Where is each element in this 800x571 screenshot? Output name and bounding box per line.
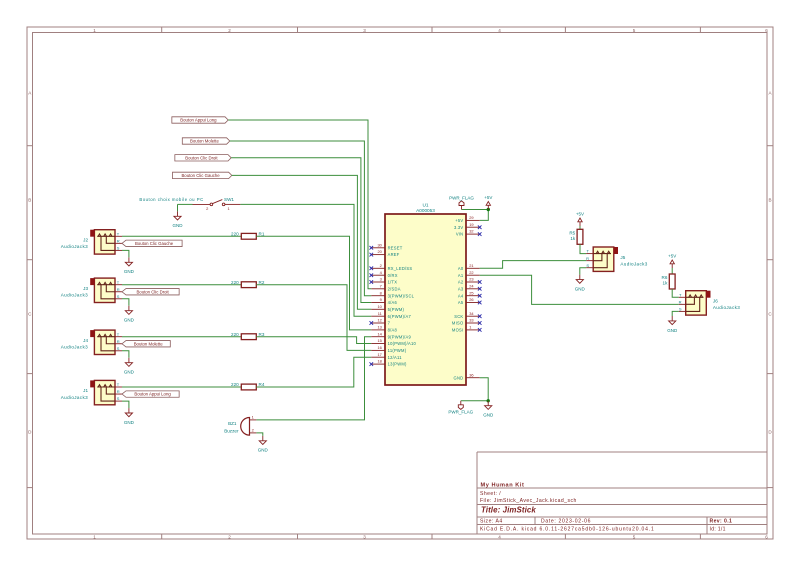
connector J2 AudioJack3 (61, 230, 122, 254)
svg-text:Bouton Appui Long: Bouton Appui Long (180, 118, 217, 123)
svg-text:13: 13 (377, 325, 381, 330)
junction +5V node (487, 208, 490, 211)
svg-text:4/A6: 4/A6 (388, 300, 398, 305)
wire Bouton Clic Droit to U1 (231, 158, 371, 303)
svg-text:12/A11: 12/A11 (388, 355, 403, 360)
svg-text:A0: A0 (458, 266, 464, 271)
no-connect X at pin 30 (370, 246, 374, 250)
U1 pin 33 MISO (466, 322, 480, 324)
svg-text:KiCad E.D.A. kicad 6.0.11-262: KiCad E.D.A. kicad 6.0.11-2627ca5db0-126… (480, 526, 655, 532)
svg-text:GND: GND (483, 413, 494, 418)
svg-text:6: 6 (765, 28, 768, 33)
svg-text:A5: A5 (458, 300, 464, 305)
svg-text:File: JimStick_Avec_Jack.kicad: File: JimStick_Avec_Jack.kicad_sch (480, 498, 577, 504)
svg-text:7: 7 (380, 283, 382, 288)
svg-text:U1: U1 (423, 203, 429, 208)
svg-text:Sheet: /: Sheet: / (480, 491, 501, 497)
hierarchical label Bouton Clic Gauche (173, 172, 232, 178)
svg-text:A000053: A000053 (416, 208, 435, 213)
svg-text:Date: 2023-02-06: Date: 2023-02-06 (541, 519, 591, 525)
wire +5V to R6 (671, 268, 673, 274)
svg-text:Bouton Molette: Bouton Molette (134, 341, 164, 346)
ground GND at J2 (125, 257, 132, 266)
IC U1 A000053 (385, 214, 466, 385)
U1 pin 10 5(PWM) (371, 308, 385, 310)
resistor R5 1k (577, 229, 583, 244)
svg-text:RX_LED/SS: RX_LED/SS (388, 266, 413, 271)
svg-text:GND: GND (173, 223, 184, 228)
U1 pin 24 A3 (466, 288, 480, 290)
no-connect X at pin 12 (370, 321, 374, 325)
svg-text:A1: A1 (458, 273, 464, 278)
svg-text:21: 21 (469, 263, 473, 268)
U1 pin 9 4/A6 (371, 302, 385, 304)
resistor R1 220 (241, 233, 256, 239)
U1 pin 1 MOSI (466, 329, 480, 331)
no-connect X at pin 19 (478, 225, 482, 229)
svg-text:Size: A4: Size: A4 (480, 519, 503, 525)
svg-text:B: B (768, 198, 771, 203)
svg-text:A4: A4 (458, 293, 464, 298)
svg-text:PWR_FLAG: PWR_FLAG (449, 195, 474, 200)
wire U1 +5V up (480, 210, 489, 221)
ground GND at U1 (485, 401, 492, 410)
connector J6 AudioJack3 (679, 291, 741, 315)
wire Bouton Molette to U1 (230, 141, 371, 296)
svg-text:36: 36 (469, 372, 473, 377)
wire J5 sleeve to GND (580, 268, 586, 275)
svg-text:S: S (586, 263, 589, 268)
svg-text:3: 3 (380, 277, 382, 282)
U1 pin 36 GND (466, 377, 480, 379)
U1 pin 15 10(PWM)/A10 (371, 343, 385, 345)
wire J3 tip to R2 (122, 284, 241, 286)
svg-text:4: 4 (498, 535, 501, 540)
wire BZ1 pin2 to GND (256, 433, 262, 436)
svg-text:R4: R4 (259, 382, 265, 387)
svg-text:Buzzer: Buzzer (224, 428, 239, 433)
svg-text:J6: J6 (713, 299, 718, 304)
svg-text:1k: 1k (570, 236, 576, 241)
svg-text:J5: J5 (620, 255, 625, 260)
wire U1 GND down (480, 378, 489, 401)
wire +5V to PWR_FLAG (462, 209, 489, 211)
svg-text:GND: GND (667, 328, 678, 333)
wire J4 tip to R3 (122, 336, 241, 338)
U1 pin 13 8/A8 (371, 329, 385, 331)
svg-text:R: R (117, 238, 120, 243)
svg-text:220: 220 (231, 332, 239, 337)
U1 pin 4 0/RX (371, 274, 385, 276)
svg-text:S: S (679, 307, 682, 312)
wire R5 to J5 tip (580, 244, 586, 253)
no-connect X at pin 4 (370, 273, 374, 277)
svg-text:2: 2 (380, 263, 382, 268)
svg-text:Bouton Clic Droit: Bouton Clic Droit (185, 155, 218, 160)
wire U1 A1 to J6 ring (480, 275, 679, 304)
svg-text:10(PWM)/A10: 10(PWM)/A10 (388, 341, 417, 346)
svg-text:2: 2 (228, 535, 231, 540)
U1 pin 18 13(PWM) (371, 363, 385, 365)
svg-text:RESET: RESET (388, 245, 403, 250)
U1 pin 20 AREF (371, 254, 385, 256)
svg-text:R: R (117, 389, 120, 394)
svg-text:+5V: +5V (455, 218, 463, 223)
U1 pin 17 12/A11 (371, 356, 385, 358)
svg-text:GND: GND (124, 370, 135, 375)
svg-text:AudioJack3: AudioJack3 (61, 293, 88, 298)
svg-text:23: 23 (469, 277, 473, 282)
svg-text:Rev: 0.1: Rev: 0.1 (710, 519, 733, 525)
U1 pin 7 2/SDA (371, 288, 385, 290)
wire R2 to U1 (256, 285, 371, 351)
U1 pin 19 3.3V (466, 226, 480, 228)
svg-text:4: 4 (498, 28, 501, 33)
svg-text:MISO: MISO (452, 321, 463, 326)
svg-text:8: 8 (380, 290, 382, 295)
svg-text:MOSI: MOSI (452, 327, 463, 332)
ground GND at BZ1 (259, 436, 266, 445)
U1 pin 16 11(PWM) (371, 349, 385, 351)
svg-text:S: S (117, 246, 120, 251)
resistor R2 220 (241, 282, 256, 288)
U1 pin 30 RESET (371, 247, 385, 249)
wire R6 to J6 tip (672, 289, 679, 297)
U1 pin 22 A1 (466, 274, 480, 276)
svg-text:Bouton Molette: Bouton Molette (190, 139, 220, 144)
svg-text:AudioJack3: AudioJack3 (620, 262, 647, 267)
svg-text:220: 220 (231, 231, 239, 236)
svg-text:J4: J4 (83, 338, 88, 343)
resistor R6 1k (669, 274, 675, 289)
svg-text:1: 1 (469, 325, 471, 330)
svg-text:R5: R5 (569, 231, 575, 236)
svg-text:11(PWM): 11(PWM) (388, 348, 407, 353)
svg-text:Bouton Clic Gauche: Bouton Clic Gauche (181, 173, 220, 178)
svg-text:GND: GND (124, 420, 135, 425)
svg-text:R3: R3 (259, 332, 265, 337)
svg-text:AudioJack3: AudioJack3 (61, 244, 88, 249)
svg-text:1: 1 (93, 535, 96, 540)
connector J4 AudioJack3 (61, 330, 122, 354)
svg-text:SW1: SW1 (224, 197, 234, 202)
svg-text:5(PWM): 5(PWM) (388, 307, 405, 312)
no-connect X at pin 26 (478, 301, 482, 305)
wire Bouton Appui Long to U1 (228, 120, 371, 289)
svg-text:R: R (586, 256, 589, 261)
svg-text:+5V: +5V (668, 254, 676, 259)
svg-text:3: 3 (363, 535, 366, 540)
U1 pin 26 A5 (466, 302, 480, 304)
power flag on GND (458, 401, 463, 410)
svg-text:AudioJack3: AudioJack3 (61, 345, 88, 350)
svg-text:+5V: +5V (576, 212, 584, 217)
no-connect X at pin 24 (478, 287, 482, 291)
wire J6 sleeve to GND (672, 311, 679, 316)
svg-text:GND: GND (575, 287, 586, 292)
svg-text:AREF: AREF (388, 252, 400, 257)
svg-text:SCK: SCK (454, 314, 463, 319)
ground GND at J3 (125, 306, 132, 315)
svg-text:R: R (679, 299, 682, 304)
ground GND at J1 (125, 408, 132, 417)
wire J1 tip to R4 (122, 386, 241, 388)
wire Bouton Clic Gauche to U1 (232, 175, 371, 309)
wire R4 to U1 (256, 357, 371, 387)
svg-text:29: 29 (469, 215, 473, 220)
no-connect X at pin 32 (478, 232, 482, 236)
title block (477, 452, 767, 534)
svg-text:A2: A2 (458, 280, 464, 285)
svg-text:BZ1: BZ1 (228, 421, 237, 426)
hierarchical label Bouton Appui Long at J1 (122, 391, 179, 397)
svg-text:9(PWM)/A9: 9(PWM)/A9 (388, 334, 412, 339)
wire J2 tip to R1 (122, 235, 241, 237)
U1 pin 3 1/TX (371, 281, 385, 283)
svg-text:GND: GND (258, 448, 269, 453)
svg-text:J2: J2 (83, 237, 88, 242)
U1 pin 25 A4 (466, 295, 480, 297)
connector J1 AudioJack3 (61, 380, 122, 404)
svg-text:GND: GND (124, 318, 135, 323)
svg-text:R: R (117, 287, 120, 292)
wire J4 sleeve to GND (122, 351, 129, 358)
svg-text:220: 220 (231, 382, 239, 387)
svg-text:13(PWM): 13(PWM) (388, 362, 407, 367)
no-connect X at pin 20 (370, 253, 374, 257)
svg-text:AudioJack3: AudioJack3 (61, 395, 88, 400)
svg-text:Bouton Clic Droit: Bouton Clic Droit (136, 289, 169, 294)
svg-text:32: 32 (469, 229, 473, 234)
ground GND at SW1 (174, 211, 181, 220)
svg-text:9: 9 (380, 297, 382, 302)
U1 pin 2 RX_LED/SS (371, 267, 385, 269)
svg-text:R6: R6 (662, 275, 668, 280)
svg-text:220: 220 (231, 280, 239, 285)
svg-text:Id: 1/1: Id: 1/1 (710, 526, 726, 532)
power +5V at R6 (670, 260, 674, 268)
svg-text:25: 25 (469, 290, 473, 295)
svg-text:8/A8: 8/A8 (388, 327, 398, 332)
wire SW1 pin2 to GND corner (178, 203, 193, 205)
power flag on +5V (459, 201, 464, 210)
svg-text:18: 18 (377, 359, 381, 364)
no-connect X at pin 23 (478, 280, 482, 284)
svg-text:AudioJack3: AudioJack3 (713, 305, 740, 310)
svg-text:1/TX: 1/TX (388, 280, 398, 285)
svg-text:0/RX: 0/RX (388, 273, 398, 278)
wire J2 sleeve to GND (122, 250, 129, 257)
svg-text:5: 5 (633, 535, 636, 540)
U1 pin 11 6(PWM)/A7 (371, 315, 385, 317)
U1 pin 29 +5V (466, 219, 480, 221)
svg-text:2: 2 (228, 28, 231, 33)
power +5V at R5 (578, 218, 582, 226)
svg-text:VIN: VIN (456, 232, 464, 237)
hierarchical label Bouton Molette at J4 (122, 341, 170, 347)
svg-text:1k: 1k (663, 281, 669, 286)
buzzer BZ1 (224, 415, 256, 436)
resistor R4 220 (241, 384, 256, 390)
no-connect X at pin 2 (370, 267, 374, 271)
hierarchical label Bouton Molette (182, 138, 230, 144)
resistor R3 220 (241, 334, 256, 340)
svg-text:3.3V: 3.3V (454, 225, 463, 230)
svg-text:PWR_FLAG: PWR_FLAG (448, 409, 473, 414)
no-connect X at pin 34 (478, 314, 482, 318)
svg-text:19: 19 (469, 222, 473, 227)
svg-text:33: 33 (469, 318, 473, 323)
svg-text:S: S (117, 396, 120, 401)
wire R1 to U1 (256, 236, 371, 330)
svg-text:3(PWM)/SCL: 3(PWM)/SCL (388, 293, 415, 298)
svg-text:R2: R2 (259, 280, 265, 285)
svg-text:Bouton Appui Long: Bouton Appui Long (134, 392, 171, 397)
no-connect X at pin 3 (370, 280, 374, 284)
svg-text:S: S (117, 294, 120, 299)
no-connect X at pin 33 (478, 321, 482, 325)
no-connect X at pin 1 (478, 328, 482, 332)
svg-text:17: 17 (377, 352, 381, 357)
U1 pin 32 VIN (466, 233, 480, 235)
no-connect X at pin 25 (478, 294, 482, 298)
U1 pin 23 A2 (466, 281, 480, 283)
U1 pin 34 SCK (466, 315, 480, 317)
U1 pin 12 7 (371, 322, 385, 324)
svg-text:26: 26 (469, 297, 473, 302)
svg-text:Bouton Clic Gauche: Bouton Clic Gauche (135, 241, 174, 246)
connector J3 AudioJack3 (61, 278, 122, 302)
svg-text:15: 15 (377, 338, 381, 343)
svg-text:R1: R1 (259, 231, 265, 236)
no-connect X at pin 18 (370, 362, 374, 366)
junction GND node (487, 399, 490, 402)
wire J1 sleeve to GND (122, 401, 129, 408)
hierarchical label Bouton Clic Gauche at J2 (122, 240, 182, 246)
hierarchical label Bouton Clic Droit at J3 (122, 289, 179, 295)
svg-text:11: 11 (378, 311, 382, 316)
svg-text:12: 12 (377, 318, 381, 323)
power +5V U1 +5V rail (486, 202, 490, 210)
U1 pin 14 9(PWM)/A9 (371, 336, 385, 338)
wire GND to PWR_FLAG (461, 400, 488, 402)
svg-text:3: 3 (363, 28, 366, 33)
wire BZ1 pin1 to U1 9(PWM)/A9 (256, 337, 371, 420)
svg-text:J3: J3 (83, 286, 88, 291)
ground GND at J6 (669, 316, 676, 325)
svg-text:6(PWM)/A7: 6(PWM)/A7 (388, 314, 412, 319)
svg-text:16: 16 (377, 345, 381, 350)
U1 pin 21 A0 (466, 267, 480, 269)
svg-text:S: S (117, 346, 120, 351)
wire SW1 GND drop (177, 204, 179, 211)
svg-text:J1: J1 (83, 388, 88, 393)
switch SW1 (193, 197, 241, 211)
U1 pin 8 3(PWM)/SCL (371, 295, 385, 297)
ground GND at J5 (576, 275, 583, 284)
svg-text:Title: JimStick: Title: JimStick (481, 506, 536, 515)
svg-text:2/SDA: 2/SDA (388, 286, 401, 291)
wire R3 to U1 (256, 337, 371, 344)
svg-text:A3: A3 (458, 286, 464, 291)
svg-text:6: 6 (765, 535, 768, 540)
wire +5V to R5 (579, 226, 581, 229)
svg-text:1: 1 (93, 28, 96, 33)
svg-text:GND: GND (454, 375, 464, 380)
wire U1 A0 to J5 ring (480, 261, 587, 269)
svg-text:+5V: +5V (484, 195, 492, 200)
wire SW1 pin1 to U1 6(PWM)/A7 (240, 204, 371, 316)
svg-text:GND: GND (124, 269, 135, 274)
ground GND at J4 (125, 358, 132, 367)
svg-text:R: R (117, 339, 120, 344)
wire J3 sleeve to GND (122, 299, 129, 306)
svg-text:B: B (28, 198, 31, 203)
svg-text:22: 22 (469, 270, 473, 275)
connector J5 AudioJack3 (586, 247, 648, 271)
hierarchical label Bouton Clic Droit (175, 155, 231, 161)
svg-text:5: 5 (633, 28, 636, 33)
svg-text:Bouton choix mobile ou PC: Bouton choix mobile ou PC (139, 197, 203, 202)
svg-text:My Human Kit: My Human Kit (481, 482, 525, 488)
hierarchical label Bouton Appui Long (172, 117, 228, 123)
